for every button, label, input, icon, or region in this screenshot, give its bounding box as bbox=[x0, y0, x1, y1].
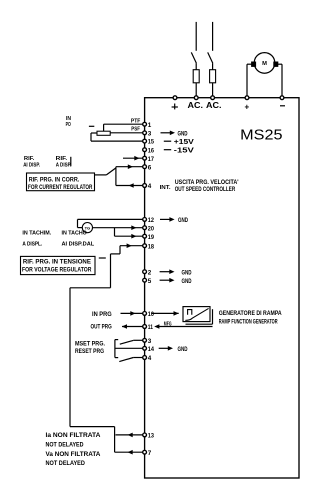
svg-text:PTF: PTF bbox=[131, 118, 141, 124]
svg-text:16: 16 bbox=[148, 147, 155, 154]
svg-text:RIF. PRG. IN CORR.: RIF. PRG. IN CORR. bbox=[29, 177, 80, 183]
svg-text:17: 17 bbox=[148, 156, 155, 163]
svg-text:-15V: -15V bbox=[174, 145, 194, 154]
svg-text:14: 14 bbox=[148, 346, 155, 353]
svg-text:IN TACHIM.: IN TACHIM. bbox=[22, 231, 51, 237]
svg-text:6: 6 bbox=[148, 164, 152, 171]
svg-text:4: 4 bbox=[148, 183, 152, 190]
svg-text:+: + bbox=[245, 103, 250, 112]
svg-text:RIF.: RIF. bbox=[56, 156, 68, 162]
svg-text:PSF: PSF bbox=[131, 127, 140, 133]
svg-text:FOR CURRENT REGULATOR: FOR CURRENT REGULATOR bbox=[28, 185, 93, 191]
svg-text:RIF.: RIF. bbox=[24, 156, 35, 162]
svg-text:2: 2 bbox=[148, 269, 152, 276]
svg-text:NOT DELAYED: NOT DELAYED bbox=[46, 443, 85, 449]
svg-text:5: 5 bbox=[148, 278, 152, 285]
svg-text:1: 1 bbox=[148, 122, 152, 129]
svg-text:IN: IN bbox=[66, 116, 71, 122]
svg-text:OUT PRG: OUT PRG bbox=[91, 325, 112, 331]
svg-text:12: 12 bbox=[148, 217, 155, 224]
svg-text:GND: GND bbox=[182, 278, 192, 285]
svg-text:FOR VOLTAGE REGULATOR: FOR VOLTAGE REGULATOR bbox=[22, 268, 92, 274]
svg-text:IN PRG: IN PRG bbox=[92, 312, 112, 318]
svg-text:RAMP FUNCTION GENERATOR: RAMP FUNCTION GENERATOR bbox=[219, 320, 278, 326]
svg-text:13: 13 bbox=[148, 433, 155, 440]
svg-text:TG: TG bbox=[85, 225, 91, 230]
svg-text:GENERATORE DI RAMPA: GENERATORE DI RAMPA bbox=[219, 311, 283, 317]
svg-text:PO: PO bbox=[66, 122, 72, 128]
svg-text:M: M bbox=[262, 61, 267, 67]
svg-text:Ia NON FILTRATA: Ia NON FILTRATA bbox=[46, 433, 102, 439]
svg-text:RESET PRG: RESET PRG bbox=[75, 349, 104, 355]
svg-text:11: 11 bbox=[148, 324, 154, 331]
svg-text:7: 7 bbox=[148, 450, 152, 457]
svg-text:MFG: MFG bbox=[164, 322, 172, 328]
svg-text:20: 20 bbox=[148, 225, 155, 232]
svg-text:INT.: INT. bbox=[160, 185, 172, 191]
svg-text:RIF. PRG. IN TENSIONE: RIF. PRG. IN TENSIONE bbox=[23, 260, 91, 266]
svg-text:3: 3 bbox=[148, 130, 152, 137]
svg-text:MSET PRG.: MSET PRG. bbox=[75, 342, 105, 348]
svg-text:4: 4 bbox=[148, 355, 152, 362]
svg-text:3: 3 bbox=[148, 338, 152, 345]
svg-text:15: 15 bbox=[148, 139, 155, 146]
svg-text:A DISP.: A DISP. bbox=[56, 163, 72, 169]
svg-text:AC.: AC. bbox=[206, 101, 222, 110]
svg-text:NOT DELAYED: NOT DELAYED bbox=[46, 461, 86, 467]
svg-text:10: 10 bbox=[148, 311, 155, 318]
svg-text:18: 18 bbox=[148, 243, 155, 250]
svg-text:19: 19 bbox=[148, 234, 155, 241]
svg-text:USCITA PRG. VELOCITA': USCITA PRG. VELOCITA' bbox=[175, 180, 239, 186]
svg-text:A DISPL.: A DISPL. bbox=[22, 241, 42, 247]
svg-text:GND: GND bbox=[178, 346, 188, 353]
svg-text:GND: GND bbox=[182, 270, 192, 277]
svg-text:MS25: MS25 bbox=[240, 127, 282, 144]
svg-text:AC.: AC. bbox=[188, 101, 204, 110]
svg-text:OUT SPEED CONTROLLER: OUT SPEED CONTROLLER bbox=[175, 187, 236, 193]
svg-text:AI DISP.DAL: AI DISP.DAL bbox=[62, 241, 95, 247]
svg-text:AI DISP.: AI DISP. bbox=[23, 163, 40, 169]
svg-text:IN TACHO: IN TACHO bbox=[62, 231, 88, 237]
svg-text:Va NON FILTRATA: Va NON FILTRATA bbox=[46, 452, 102, 458]
svg-text:GND: GND bbox=[178, 217, 188, 224]
